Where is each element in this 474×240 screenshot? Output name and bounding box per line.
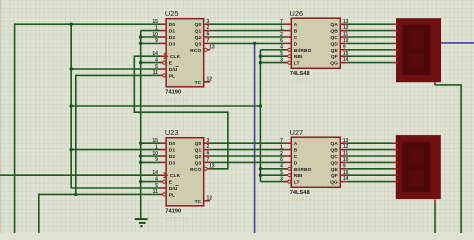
wire vertical x=38.8 to bottom edge <box>38 194 40 233</box>
svg-text:6: 6 <box>280 38 283 44</box>
74LS48 decoder U26 <box>280 9 349 83</box>
svg-text:LT: LT <box>294 180 300 186</box>
pin 1 U23.D1 <box>160 149 166 151</box>
wire to U27 LT (corner) <box>260 181 287 183</box>
wire to U23 D3 pin <box>141 161 161 163</box>
wire U25.Q1 to U26 input <box>210 30 285 32</box>
junction W1 / control chain <box>259 104 262 107</box>
svg-text:1: 1 <box>280 25 283 31</box>
wire U26.QF to display1 <box>347 55 393 57</box>
wire to U26 LT <box>260 62 287 64</box>
junction Q3 / blue branch <box>253 42 256 45</box>
svg-text:74190: 74190 <box>165 209 181 215</box>
svg-text:5: 5 <box>280 170 283 176</box>
svg-text:Q0: Q0 <box>195 22 202 28</box>
pin 6 U23.Q2 <box>204 155 210 157</box>
junction x71 at U23 D1 row <box>70 148 73 151</box>
svg-text:RBI: RBI <box>294 54 303 60</box>
svg-text:D: D <box>294 41 298 47</box>
svg-text:Q0: Q0 <box>195 141 202 147</box>
svg-text:A: A <box>294 22 298 28</box>
svg-text:11: 11 <box>153 189 159 195</box>
wire to U23 D/U pin (corner at x71) <box>71 187 160 189</box>
junction gnd/U23.D0 <box>139 142 142 145</box>
svg-text:13: 13 <box>209 44 215 50</box>
pin 1 U25.D1 <box>160 30 166 32</box>
svg-text:3: 3 <box>207 138 210 144</box>
wire to U26 BI/RBO (corner) <box>260 49 287 51</box>
svg-text:QE: QE <box>331 48 339 54</box>
pin 15 U27.QF <box>340 174 346 176</box>
svg-text:B: B <box>294 29 298 35</box>
pin 9 U25.D3 <box>160 42 166 44</box>
svg-text:A: A <box>294 141 298 147</box>
svg-text:<TEXT>: <TEXT> <box>166 217 188 223</box>
wire net-D0 horizontal to U25.D0 <box>15 23 161 25</box>
wire U25.Q2 to U26 input <box>210 36 285 38</box>
svg-text:12: 12 <box>343 144 349 150</box>
wire U23 PL row from corner x=38.8 <box>39 193 160 195</box>
svg-text:D: D <box>294 160 298 166</box>
svg-text:3: 3 <box>207 19 210 25</box>
pin 10 U23.D2 <box>160 155 166 157</box>
wire U27.QC to display2 <box>347 155 393 157</box>
junction chain/U26.RBI <box>259 55 262 58</box>
pin 7 U26.A <box>285 23 291 25</box>
svg-text:D1: D1 <box>169 148 176 154</box>
pin 1 U26.B <box>285 30 291 32</box>
svg-text:QA: QA <box>330 141 338 147</box>
svg-text:74LS48: 74LS48 <box>290 71 310 77</box>
pin 3 U26.LT <box>285 62 288 64</box>
svg-text:9: 9 <box>155 157 158 163</box>
pin 14 U25.CLK <box>160 55 166 57</box>
wire U25.Q3 to U26 input <box>210 42 285 44</box>
pin 9 U26.QE <box>340 49 346 51</box>
wire to U27 BI/RBO <box>260 168 287 170</box>
svg-text:Q1: Q1 <box>195 148 202 154</box>
pin 6 U27.D <box>285 161 291 163</box>
pin 2 U27.C <box>285 155 291 157</box>
svg-text:2: 2 <box>207 144 210 150</box>
svg-text:9: 9 <box>343 44 346 50</box>
pin 12 U27.QB <box>340 149 346 151</box>
wire U27.QB to display2 <box>347 149 393 151</box>
svg-text:15: 15 <box>343 51 349 57</box>
wire ground-net vertical x=140.7 <box>140 31 142 219</box>
svg-text:10: 10 <box>343 38 349 44</box>
svg-text:D/U: D/U <box>169 67 178 73</box>
wire U23.Q0 to U27 input <box>210 142 285 144</box>
pin 4 U23.E <box>160 181 163 183</box>
wire to U25 D/U pin <box>71 68 160 70</box>
pin 9 U23.D3 <box>160 161 166 163</box>
svg-text:3: 3 <box>280 176 283 182</box>
svg-text:13: 13 <box>343 19 349 25</box>
wire to U23 E pin <box>141 181 162 183</box>
wire cascade U23.RCO to U25.CLK <box>134 56 228 169</box>
svg-text:7: 7 <box>280 138 283 144</box>
junction gnd/U25.D2 <box>139 35 142 38</box>
svg-text:14: 14 <box>343 176 349 182</box>
wire U27.QD to display2 <box>347 161 393 163</box>
svg-text:LT: LT <box>294 61 300 67</box>
svg-text:11: 11 <box>343 151 349 157</box>
svg-text:9: 9 <box>343 163 346 169</box>
wire U23.Q2 to U27 input <box>210 155 285 157</box>
svg-text:Q3: Q3 <box>195 41 202 47</box>
junction gnd/U23.D2 <box>139 154 142 157</box>
svg-text:15: 15 <box>343 170 349 176</box>
svg-text:7: 7 <box>207 157 210 163</box>
pin 15 U26.QF <box>340 55 346 57</box>
74190 counter U23 <box>152 128 215 223</box>
ground <box>135 219 148 226</box>
junction gnd/U25.D3 <box>139 42 142 45</box>
pin 11 U23.PL <box>160 193 163 195</box>
wire to U23 D0 pin <box>141 142 161 144</box>
svg-text:U27: U27 <box>290 128 304 137</box>
pin 3 U23.Q0 <box>204 142 210 144</box>
svg-text:RCO: RCO <box>190 48 201 54</box>
svg-text:D0: D0 <box>169 22 176 28</box>
svg-text:1: 1 <box>155 144 158 150</box>
svg-text:D1: D1 <box>169 29 176 35</box>
pin 5 U25.D/U <box>160 68 166 70</box>
pin 12 U23.TC <box>204 200 210 202</box>
wire to U25 D3 pin <box>141 42 161 44</box>
wire to U25 D2 pin <box>141 36 161 38</box>
svg-text:<TEXT>: <TEXT> <box>290 197 312 203</box>
wire to U23 D1 pin <box>71 149 160 151</box>
svg-text:CLK: CLK <box>170 54 181 60</box>
svg-text:7: 7 <box>280 19 283 25</box>
pin 14 U26.QG <box>340 62 346 64</box>
pin 14 U23.CLK <box>160 174 166 176</box>
svg-text:6: 6 <box>207 151 210 157</box>
wire U26.QD to display1 <box>347 42 393 44</box>
svg-text:QB: QB <box>330 148 338 154</box>
pin 1 U27.B <box>285 149 291 151</box>
svg-text:2: 2 <box>207 25 210 31</box>
svg-text:5: 5 <box>155 64 158 70</box>
junction chain/U27.BI/RBO <box>259 167 262 170</box>
svg-text:QA: QA <box>330 22 338 28</box>
svg-text:U23: U23 <box>165 128 179 137</box>
svg-text:13: 13 <box>209 163 215 169</box>
svg-text:D3: D3 <box>169 41 176 47</box>
wire U23.Q1 to U27 input <box>210 149 285 151</box>
svg-text:QG: QG <box>330 61 338 67</box>
wire to U25 D1 pin (corner) <box>141 30 161 32</box>
pin 5 U26.RBI <box>285 55 288 57</box>
svg-text:9: 9 <box>155 38 158 44</box>
svg-text:6: 6 <box>207 32 210 38</box>
display2 pins <box>393 143 435 203</box>
pin 13 U25.RCO <box>204 48 207 51</box>
wire U26.QG to display1 <box>347 62 393 64</box>
svg-text:6: 6 <box>280 157 283 163</box>
svg-text:C: C <box>294 154 298 160</box>
svg-text:U25: U25 <box>165 9 179 18</box>
svg-text:QF: QF <box>331 173 338 179</box>
wire U26.QA to display1 <box>347 23 393 25</box>
pin 13 U23.RCO <box>204 167 207 170</box>
junction gnd/U25.E <box>139 61 142 64</box>
pin 11 U26.QC <box>340 36 346 38</box>
svg-text:D2: D2 <box>169 35 176 41</box>
wire net-D0 vertical x=14.6 to bottom edge <box>14 23 16 233</box>
wire U27.QE to display2 <box>347 168 393 170</box>
pin 12 U25.TC <box>204 81 210 83</box>
pin 4 U25.E <box>160 62 163 64</box>
svg-text:13: 13 <box>343 138 349 144</box>
display1 pins <box>393 24 435 85</box>
pin 4 U27.BI/RBO <box>285 168 288 170</box>
pin 10 U25.D2 <box>160 36 166 38</box>
svg-text:U26: U26 <box>290 9 304 18</box>
junction gnd/U23.E <box>139 180 142 183</box>
pin 10 U26.QD <box>340 42 346 44</box>
wire vertical x=75.8 PL riser <box>75 75 77 195</box>
wire control-chain vertical x=260.4 <box>259 50 261 182</box>
junction chain/U27.RBI <box>259 174 262 177</box>
wire U27.QF to display2 <box>347 174 393 176</box>
svg-text:4: 4 <box>155 176 158 182</box>
svg-text:11: 11 <box>343 32 349 38</box>
svg-text:74LS48: 74LS48 <box>290 190 310 196</box>
pin 13 U27.QA <box>340 142 346 144</box>
svg-text:4: 4 <box>280 164 283 170</box>
svg-text:QG: QG <box>330 180 338 186</box>
svg-text:RBI: RBI <box>294 173 303 179</box>
pin 12 U26.QB <box>340 30 346 32</box>
svg-text:D2: D2 <box>169 154 176 160</box>
74190 counter U25 <box>152 9 215 104</box>
pin 2 U23.Q1 <box>204 149 210 151</box>
pin 5 U27.RBI <box>285 174 288 176</box>
wire blue stub right of display1 <box>441 42 474 44</box>
pin 6 U26.D <box>285 42 291 44</box>
wire U25.Q0 to U26 input <box>210 23 285 25</box>
svg-text:14: 14 <box>152 51 158 57</box>
svg-text:Q2: Q2 <box>195 154 202 160</box>
svg-text:BI/RBO: BI/RBO <box>294 48 312 54</box>
pin 3 U25.Q0 <box>204 23 210 25</box>
svg-text:74190: 74190 <box>165 90 181 96</box>
pin 13 U26.QA <box>340 23 346 25</box>
pin 2 U25.Q1 <box>204 30 210 32</box>
svg-text:C: C <box>294 35 298 41</box>
svg-text:PL: PL <box>169 73 175 79</box>
wire W1 y=106 to decoder-control chain <box>71 105 260 107</box>
wire to U27 RBI <box>260 174 287 176</box>
pin 2 U26.C <box>285 36 291 38</box>
left window edge <box>0 0 1 233</box>
pin 11 U25.PL <box>160 74 163 76</box>
svg-text:10: 10 <box>152 32 158 38</box>
wire U27.QG to display2 <box>347 181 393 183</box>
wire U25 PL row <box>76 74 160 76</box>
svg-text:QD: QD <box>330 41 338 47</box>
wire U23.Q3 to U27 input <box>210 161 285 163</box>
svg-text:QF: QF <box>331 54 338 60</box>
svg-text:1: 1 <box>280 144 283 150</box>
wire blue vertical x=254.6 <box>254 43 256 233</box>
svg-text:BI/RBO: BI/RBO <box>294 167 312 173</box>
svg-text:10: 10 <box>343 157 349 163</box>
wire display2 common to bottom edge <box>434 203 436 233</box>
svg-text:2: 2 <box>280 151 283 157</box>
svg-text:QD: QD <box>330 160 338 166</box>
pin 15 U25.D0 <box>160 23 166 25</box>
svg-text:2: 2 <box>280 32 283 38</box>
svg-text:4: 4 <box>280 45 283 51</box>
wire U26.QB to display1 <box>347 30 393 32</box>
svg-text:10: 10 <box>152 151 158 157</box>
junction chain/U26.LT <box>259 61 262 64</box>
svg-text:D0: D0 <box>169 141 176 147</box>
svg-text:12: 12 <box>343 25 349 31</box>
svg-text:PL: PL <box>169 192 175 198</box>
svg-text:QE: QE <box>331 167 339 173</box>
wire to U23 D2 pin <box>141 155 161 157</box>
svg-text:5: 5 <box>155 183 158 189</box>
junction x71 at y106 <box>70 104 73 107</box>
svg-text:QC: QC <box>330 154 338 160</box>
svg-text:RCO: RCO <box>190 167 201 173</box>
7-segment display display1 <box>396 19 440 82</box>
junction gnd/U23.D3 <box>139 161 142 164</box>
svg-text:Q1: Q1 <box>195 29 202 35</box>
7-segment display display2 <box>396 136 440 199</box>
pin 7 U25.Q3 <box>204 42 210 44</box>
junction node D0/x71 <box>70 23 73 26</box>
svg-text:QC: QC <box>330 35 338 41</box>
wire to U26 RBI <box>260 55 287 57</box>
svg-text:14: 14 <box>152 170 158 176</box>
svg-text:15: 15 <box>152 19 158 25</box>
svg-text:Q2: Q2 <box>195 35 202 41</box>
svg-text:CLK: CLK <box>170 173 181 179</box>
pin 7 U27.A <box>285 142 291 144</box>
svg-text:14: 14 <box>343 57 349 63</box>
wire U26.QE to display1 <box>347 49 393 51</box>
svg-text:12: 12 <box>207 195 213 201</box>
pin 11 U27.QC <box>340 155 346 157</box>
pin 6 U25.Q2 <box>204 36 210 38</box>
svg-text:12: 12 <box>207 76 213 82</box>
svg-text:4: 4 <box>155 57 158 63</box>
pin 10 U27.QD <box>340 161 346 163</box>
junction PL riser / U23 PL wire <box>74 193 77 196</box>
74LS48 decoder U27 <box>280 128 349 202</box>
pin 3 U27.LT <box>285 181 288 183</box>
pin 4 U26.BI/RBO <box>285 49 288 51</box>
pin 15 U23.D0 <box>160 142 166 144</box>
svg-text:1: 1 <box>155 25 158 31</box>
wire U26.QC to display1 <box>347 36 393 38</box>
svg-text:15: 15 <box>152 138 158 144</box>
wire to U25 E pin <box>141 62 162 64</box>
svg-text:TC: TC <box>195 80 202 86</box>
svg-text:<TEXT>: <TEXT> <box>166 98 188 104</box>
wire U27.QA to display2 <box>347 142 393 144</box>
svg-text:<TEXT>: <TEXT> <box>290 78 312 84</box>
svg-text:11: 11 <box>153 70 159 76</box>
pin 5 U23.D/U <box>160 187 166 189</box>
junction x71 at U25 D/U row <box>70 67 73 70</box>
svg-text:D/U: D/U <box>169 186 178 192</box>
svg-text:7: 7 <box>207 38 210 44</box>
svg-text:B: B <box>294 148 298 154</box>
pin 7 U23.Q3 <box>204 161 210 163</box>
wire U23 CLK from left edge <box>0 174 160 176</box>
svg-text:D3: D3 <box>169 160 176 166</box>
pin 14 U27.QG <box>340 181 346 183</box>
svg-text:3: 3 <box>280 57 283 63</box>
svg-text:QB: QB <box>330 29 338 35</box>
svg-text:Q3: Q3 <box>195 160 202 166</box>
wire display1 common to bottom edge <box>435 85 461 233</box>
svg-text:TC: TC <box>195 199 202 205</box>
pin 9 U27.QE <box>340 168 346 170</box>
wire vertical x=71 (D0 net riser) <box>70 24 72 188</box>
svg-text:5: 5 <box>280 51 283 57</box>
